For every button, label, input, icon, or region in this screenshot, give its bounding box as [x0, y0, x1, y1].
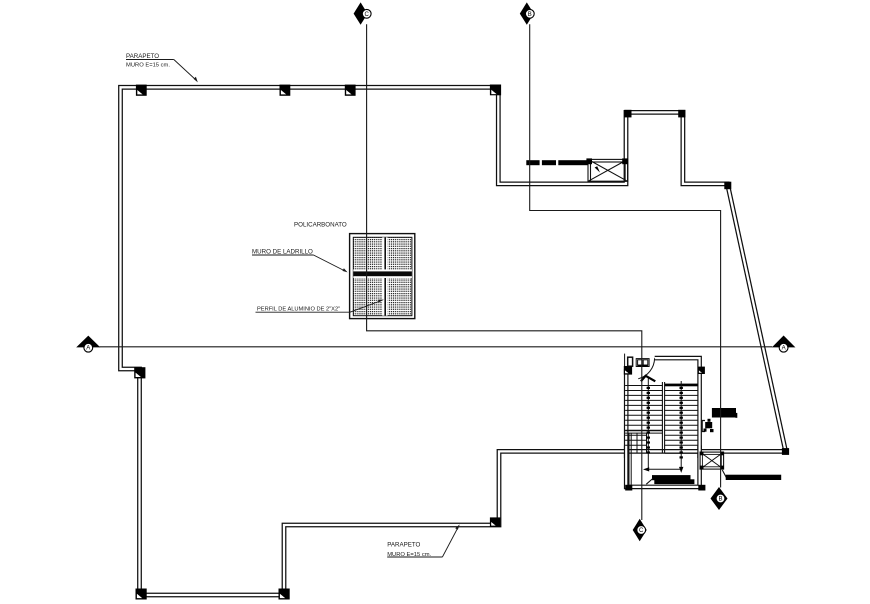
- label: muro de ladrillo: [252, 249, 348, 273]
- svg-text:PARAPETO: PARAPETO: [387, 542, 420, 549]
- svg-text:C: C: [365, 12, 370, 18]
- corner marker: bottom step right: [279, 589, 290, 600]
- duct x-box (top, beside notch): [586, 158, 628, 181]
- grid line A (horizontal): [100, 346, 773, 348]
- corner marker: left wall jog: [134, 367, 145, 378]
- stair lower-left corridor lines: [629, 433, 631, 485]
- grid line C (vertical, jogged): [367, 24, 642, 520]
- label: policarbonato: [294, 222, 347, 229]
- label: parapeto top-left: [126, 53, 198, 82]
- corner marker: mid step: [490, 517, 501, 527]
- stair mid landing edge (double line): [625, 431, 662, 433]
- grid bubble A left: [76, 336, 100, 353]
- grid bubble B bottom: [711, 487, 728, 510]
- stair right flight top bold edge: [665, 384, 698, 387]
- stair door leaf: [641, 376, 655, 382]
- svg-text:B: B: [718, 497, 722, 503]
- stair corner marker bottom-left: [625, 485, 632, 491]
- svg-text:A: A: [86, 346, 90, 352]
- svg-text:POLICARBONATO: POLICARBONATO: [294, 222, 347, 229]
- column marker: top wall #1: [136, 85, 147, 96]
- column marker: top wall #3: [345, 85, 356, 96]
- stair walk line connector with arrows: [643, 467, 683, 473]
- notch corner marker: x-box right wall top: [624, 110, 631, 118]
- wall section: black dashed beam bar: [526, 160, 587, 165]
- small fixture below tank: [702, 419, 713, 432]
- diagonal tick to eave bar: [722, 470, 726, 478]
- corner marker: diagonal top: [724, 182, 731, 190]
- stair bottom landing black bars: [652, 475, 691, 480]
- stair door swing arc: [638, 358, 654, 379]
- grid bubble C bottom: [633, 519, 647, 541]
- corner marker: bottom-left: [136, 589, 147, 600]
- corner marker: diagonal bottom right: [782, 448, 789, 455]
- notch corner marker: notch top right: [678, 110, 685, 118]
- stair right flight treads: [665, 391, 698, 454]
- svg-text:A: A: [782, 346, 786, 352]
- skylight beam band: [353, 269, 412, 278]
- duct x-box (right of stair): [700, 452, 724, 470]
- stair corner marker bottom-right: [698, 485, 705, 491]
- column marker: top wall #2: [280, 85, 291, 96]
- stair walk line right (with riser ticks): [680, 381, 683, 469]
- stair wall patch at building-wall crossing (left): [626, 446, 699, 459]
- label: parapeto bottom: [387, 524, 460, 558]
- grid bubble B top: [520, 2, 534, 24]
- wire: main parapet wall outline (double line): [121, 87, 786, 595]
- stair door hinge post: [628, 357, 633, 366]
- svg-text:PERFIL DE ALUMINIO DE 2"X2": PERFIL DE ALUMINIO DE 2"X2": [257, 307, 340, 313]
- stair left wall jamb stub above door: [624, 354, 626, 367]
- water tank black rect beside stair: [712, 408, 737, 418]
- stair lower-left narrow treads: [625, 433, 646, 453]
- grid bubble A right: [772, 336, 796, 353]
- stair centre stringer (double line): [662, 382, 664, 453]
- svg-text:B: B: [528, 12, 532, 18]
- stair corner marker top-right: [698, 367, 705, 374]
- stair left flight treads: [625, 386, 662, 431]
- stair walk line left (with riser ticks): [647, 378, 650, 470]
- stair door frame box with panels: [636, 359, 649, 367]
- eave black bar bottom-right: [726, 475, 782, 480]
- svg-text:MURO E=15 cm.: MURO E=15 cm.: [126, 63, 170, 69]
- svg-text:MURO DE LADRILLO: MURO DE LADRILLO: [252, 249, 313, 256]
- stair corner marker top-left: [624, 366, 632, 375]
- stair landing diagonal tick: [646, 479, 653, 485]
- svg-text:C: C: [639, 528, 644, 534]
- skylight mullion gap: [382, 237, 387, 315]
- grid line B (vertical, jogged): [530, 24, 721, 487]
- svg-text:PARAPETO: PARAPETO: [126, 53, 159, 60]
- skylight: policarbonato box: [350, 234, 415, 319]
- stair enclosure walls (double line): [626, 358, 699, 487]
- label: perfil de aluminio: [256, 300, 384, 313]
- corner marker: top wall right end: [490, 85, 501, 96]
- grid bubble C top: [354, 2, 372, 24]
- staircase interior: [624, 354, 706, 491]
